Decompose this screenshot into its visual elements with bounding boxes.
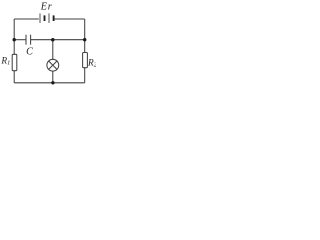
- svg-text:E: E: [40, 2, 48, 13]
- node junction dot bottom (lamp branch / bottom wire): [51, 81, 54, 84]
- node junction dot left (capacitor branch / left wire): [13, 38, 16, 41]
- svg-text:r: r: [48, 2, 52, 13]
- wire top-left: battery left lead: [14, 18, 39, 20]
- wire lamp branch upper: [52, 40, 54, 60]
- wire right side (top corner down to R2): [84, 19, 86, 53]
- battery E,r plate: long thin (cell 1 positive): [39, 13, 41, 23]
- svg-text:R2: R2: [87, 58, 96, 68]
- wire left side (R1 to bottom corner): [13, 71, 15, 83]
- capacitor C right plate: [30, 35, 32, 45]
- wire lamp branch lower: [52, 71, 54, 83]
- capacitor C left plate: [25, 35, 27, 45]
- battery E,r plate: short thick (cell 1 negative): [44, 15, 46, 21]
- wire right side (R2 to bottom corner): [84, 68, 86, 83]
- lamp cross stroke 2: [49, 61, 57, 69]
- svg-text:R1: R1: [0, 57, 10, 67]
- node junction dot right (capacitor branch / right wire): [83, 38, 86, 41]
- resistor R2 body: [83, 53, 88, 68]
- svg-text:C: C: [26, 46, 33, 57]
- lamp bulb circle: [47, 59, 59, 71]
- lamp cross stroke 1: [49, 61, 57, 69]
- node junction dot middle (lamp branch / capacitor branch): [51, 38, 55, 42]
- battery E,r plate: long thin (cell 2 positive): [48, 13, 50, 23]
- battery E,r plate: short thick (cell 2 negative): [53, 15, 55, 21]
- wire left side (top corner down to R1): [13, 19, 15, 54]
- wire middle branch right (capacitor to right node): [31, 39, 85, 41]
- wire bottom: [14, 82, 85, 84]
- resistor R1 body: [12, 54, 17, 70]
- wire top-right: battery right lead: [54, 18, 84, 20]
- wire middle branch left (left node to capacitor): [14, 39, 25, 41]
